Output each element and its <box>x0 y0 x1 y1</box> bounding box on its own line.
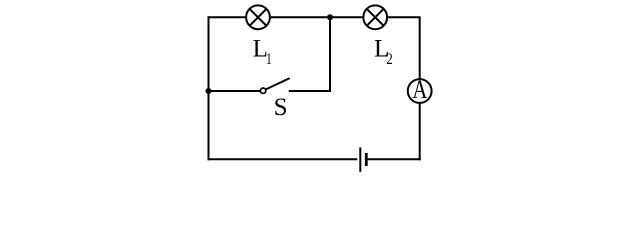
svg-text:A: A <box>412 76 427 105</box>
wire: right vertical below ammeter <box>419 103 421 161</box>
wire: bottom left horizontal to battery <box>208 158 358 160</box>
node: junction dot on left wire <box>206 88 212 94</box>
node: junction dot on top wire <box>327 14 333 20</box>
wire: middle vertical branch from junction down and left to switch <box>289 18 330 91</box>
battery <box>360 147 366 171</box>
svg-text:2: 2 <box>386 51 392 69</box>
wire: left vertical side of outer loop <box>208 16 210 160</box>
label L1 <box>253 36 272 69</box>
wire: from left junction to switch pivot <box>209 90 261 92</box>
wire: bottom right horizontal from battery <box>367 158 420 160</box>
switch S blade <box>266 78 290 89</box>
svg-text:1: 1 <box>266 51 272 68</box>
lamp L2 <box>363 5 387 29</box>
switch S pivot <box>260 88 265 93</box>
wire: top right horizontal and right vertical down to ammeter <box>387 17 420 79</box>
label L2 <box>374 36 393 69</box>
svg-text:S: S <box>274 94 288 121</box>
wire: top left horizontal to lamp L1 <box>208 16 247 18</box>
ammeter A <box>408 76 432 105</box>
wire: top middle between L1 and L2 <box>270 16 364 18</box>
lamp L1 <box>246 5 270 29</box>
